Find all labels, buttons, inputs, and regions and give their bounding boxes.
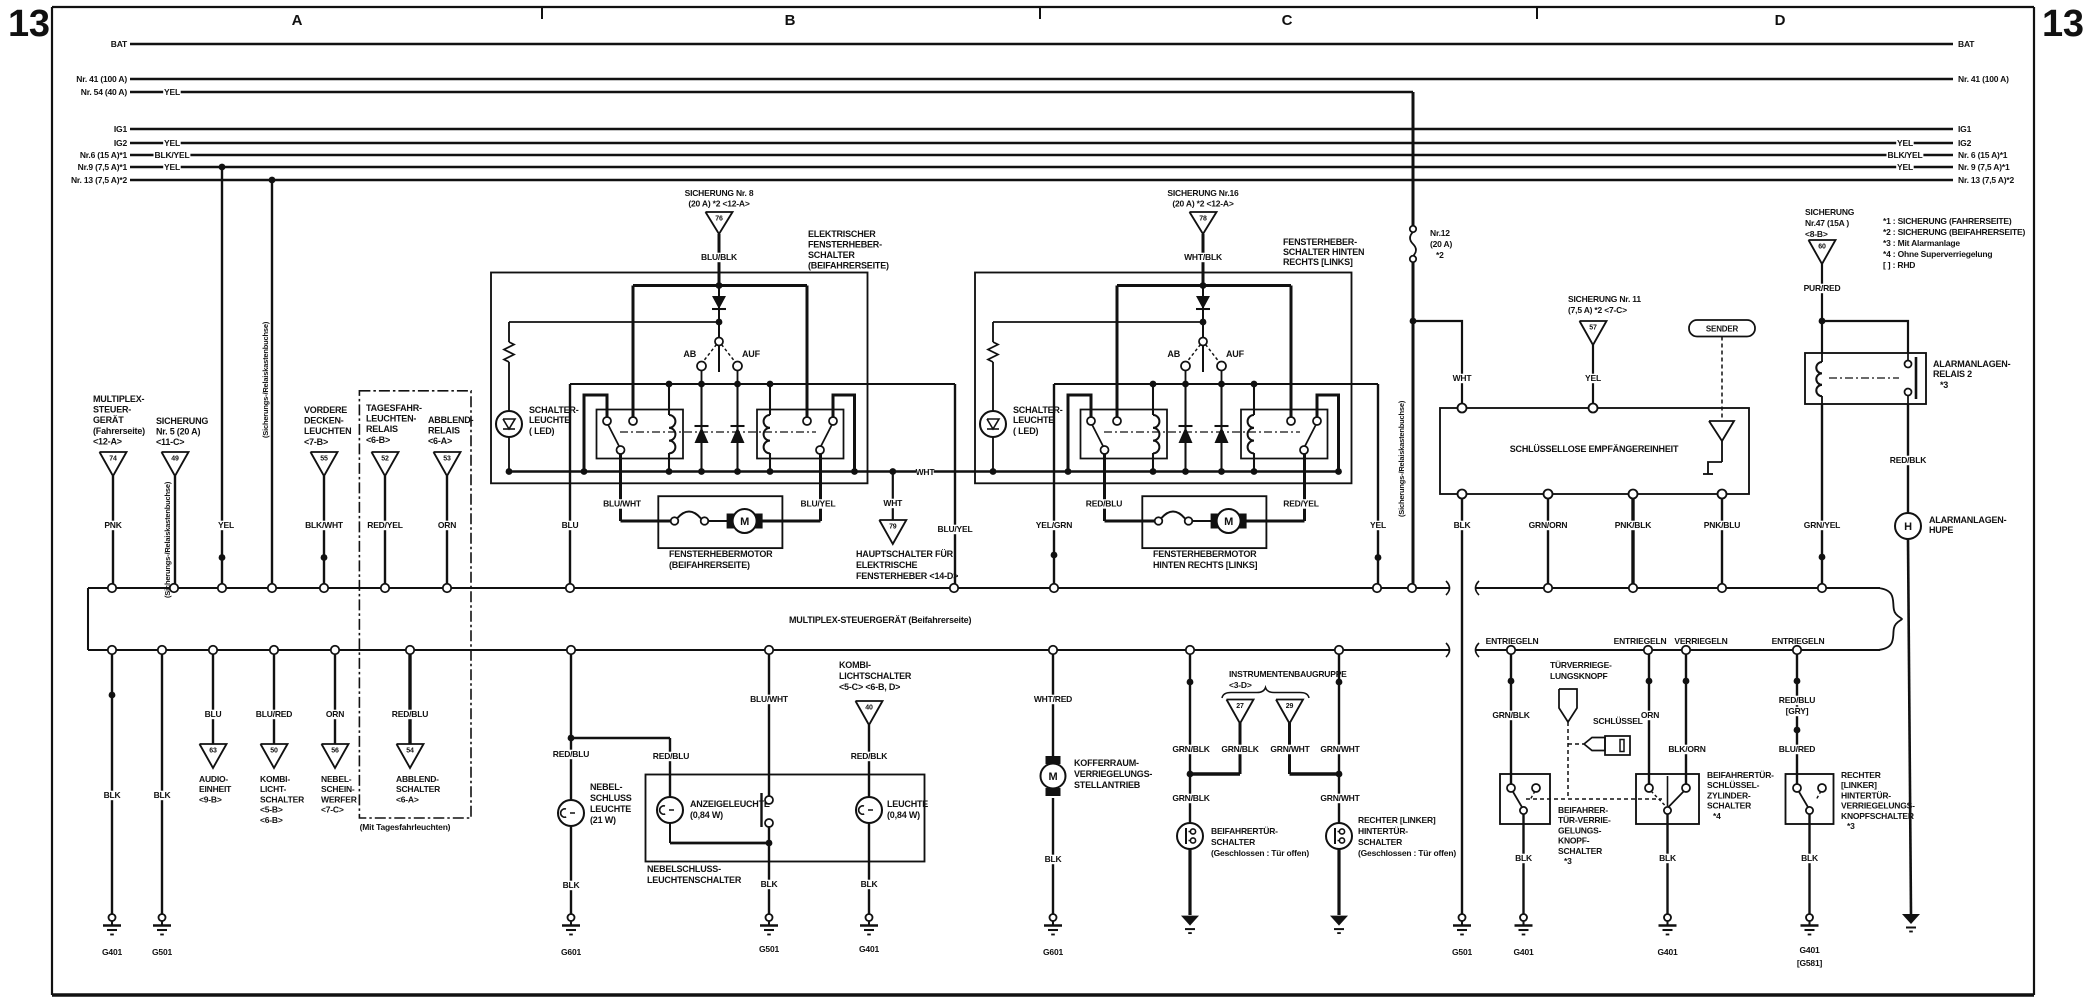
svg-text:WHT: WHT bbox=[916, 467, 936, 477]
svg-text:BLK: BLK bbox=[1515, 853, 1533, 863]
svg-text:YEL: YEL bbox=[164, 87, 180, 97]
svg-text:SCHLUSS: SCHLUSS bbox=[590, 793, 632, 803]
svg-text:HINTERTÜR-: HINTERTÜR- bbox=[1841, 790, 1891, 800]
svg-text:IG2: IG2 bbox=[1958, 138, 1972, 148]
svg-text:ELEKTRISCHE: ELEKTRISCHE bbox=[856, 560, 918, 570]
svg-text:M: M bbox=[1224, 516, 1233, 528]
svg-text:GRN/BLK: GRN/BLK bbox=[1172, 793, 1210, 803]
svg-text:SCHLÜSSEL-: SCHLÜSSEL- bbox=[1707, 780, 1760, 790]
svg-text:SCHLÜSSEL: SCHLÜSSEL bbox=[1593, 716, 1643, 726]
svg-text:VERRIEGELUNGS-: VERRIEGELUNGS- bbox=[1841, 801, 1915, 811]
svg-text:G501: G501 bbox=[759, 944, 779, 954]
svg-text:WERFER: WERFER bbox=[321, 794, 357, 804]
svg-text:IG2: IG2 bbox=[114, 138, 128, 148]
svg-text:G401: G401 bbox=[102, 947, 122, 957]
svg-text:HAUPTSCHALTER FÜR: HAUPTSCHALTER FÜR bbox=[856, 549, 954, 559]
svg-text:TÜRVERRIEGE-: TÜRVERRIEGE- bbox=[1550, 660, 1612, 670]
svg-text:SCHEIN-: SCHEIN- bbox=[321, 784, 355, 794]
svg-text:BLU: BLU bbox=[562, 520, 579, 530]
svg-text:LEUCHTENSCHALTER: LEUCHTENSCHALTER bbox=[647, 875, 742, 885]
svg-text:56: 56 bbox=[331, 748, 339, 755]
svg-text:IG1: IG1 bbox=[1958, 124, 1972, 134]
svg-text:SCHALTER HINTEN: SCHALTER HINTEN bbox=[1283, 247, 1364, 257]
svg-text:DECKEN-: DECKEN- bbox=[304, 416, 344, 426]
svg-text:(Sicherungs-/Relaiskastenbuchs: (Sicherungs-/Relaiskastenbuchse) bbox=[1397, 400, 1406, 517]
svg-text:YEL/GRN: YEL/GRN bbox=[1036, 520, 1072, 530]
svg-text:50: 50 bbox=[270, 748, 278, 755]
svg-text:Nr. 54 (40 A): Nr. 54 (40 A) bbox=[81, 87, 128, 97]
svg-text:GRN/WHT: GRN/WHT bbox=[1270, 744, 1310, 754]
svg-text:GRN/WHT: GRN/WHT bbox=[1320, 793, 1360, 803]
svg-text:BLK/YEL: BLK/YEL bbox=[155, 150, 190, 160]
svg-text:G401: G401 bbox=[1800, 945, 1820, 955]
svg-text:YEL: YEL bbox=[218, 520, 234, 530]
svg-text:SCHALTER: SCHALTER bbox=[1358, 837, 1402, 847]
svg-text:(0,84 W): (0,84 W) bbox=[887, 810, 920, 820]
svg-text:BLK/WHT: BLK/WHT bbox=[305, 520, 344, 530]
svg-text:BEIFAHRER-: BEIFAHRER- bbox=[1558, 805, 1608, 815]
svg-text:(Geschlossen : Tür offen): (Geschlossen : Tür offen) bbox=[1211, 848, 1309, 858]
svg-text:(0,84 W): (0,84 W) bbox=[690, 810, 723, 820]
svg-text:<12-A>: <12-A> bbox=[93, 436, 122, 446]
svg-text:Nr. 6 (15 A)*1: Nr. 6 (15 A)*1 bbox=[1958, 150, 2008, 160]
svg-text:*4: *4 bbox=[1713, 811, 1721, 821]
svg-text:BLK: BLK bbox=[861, 879, 879, 889]
svg-text:BLU/BLK: BLU/BLK bbox=[701, 252, 738, 262]
svg-text:*3: *3 bbox=[1847, 821, 1855, 831]
svg-text:78: 78 bbox=[1199, 216, 1207, 223]
svg-text:WHT/BLK: WHT/BLK bbox=[1184, 252, 1223, 262]
svg-text:SCHLÜSSELLOSE EMPFÄNGEREINHEIT: SCHLÜSSELLOSE EMPFÄNGEREINHEIT bbox=[1510, 444, 1679, 454]
svg-text:YEL: YEL bbox=[1585, 373, 1601, 383]
svg-text:*1 : SICHERUNG (FAHRERSEITE): *1 : SICHERUNG (FAHRERSEITE) bbox=[1883, 216, 2012, 226]
svg-text:SICHERUNG Nr. 11: SICHERUNG Nr. 11 bbox=[1568, 294, 1641, 304]
svg-text:AUF: AUF bbox=[742, 349, 761, 359]
svg-text:LEUCHTE: LEUCHTE bbox=[529, 415, 570, 425]
svg-text:G401: G401 bbox=[1658, 947, 1678, 957]
svg-text:Nr. 41 (100 A): Nr. 41 (100 A) bbox=[76, 74, 127, 84]
svg-text:B: B bbox=[785, 12, 796, 29]
svg-text:BLK: BLK bbox=[563, 880, 581, 890]
svg-text:( LED): ( LED) bbox=[1013, 426, 1038, 436]
svg-text:<6-B>: <6-B> bbox=[366, 435, 390, 445]
svg-text:G501: G501 bbox=[152, 947, 172, 957]
svg-text:ELEKTRISCHER: ELEKTRISCHER bbox=[808, 229, 876, 239]
svg-text:RED/BLU: RED/BLU bbox=[1086, 499, 1122, 509]
svg-text:SCHALTER: SCHALTER bbox=[1211, 837, 1255, 847]
svg-text:LEUCHTEN-: LEUCHTEN- bbox=[366, 414, 416, 424]
svg-text:79: 79 bbox=[889, 524, 897, 531]
svg-text:ENTRIEGELN: ENTRIEGELN bbox=[1614, 636, 1667, 646]
svg-text:BLK: BLK bbox=[104, 790, 122, 800]
svg-text:(Sicherungs-/Relaiskastenbuchs: (Sicherungs-/Relaiskastenbuchse) bbox=[163, 481, 172, 598]
svg-text:PNK/BLK: PNK/BLK bbox=[1615, 520, 1652, 530]
svg-text:MULTIPLEX-STEUERGERÄT (Beifahr: MULTIPLEX-STEUERGERÄT (Beifahrerseite) bbox=[789, 615, 971, 625]
svg-text:SCHALTER-: SCHALTER- bbox=[1013, 405, 1063, 415]
svg-text:LICHTSCHALTER: LICHTSCHALTER bbox=[839, 671, 912, 681]
svg-text:(Mit Tagesfahrleuchten): (Mit Tagesfahrleuchten) bbox=[360, 822, 451, 832]
svg-text:<6-A>: <6-A> bbox=[396, 794, 419, 804]
svg-text:Nr. 9 (7,5 A)*1: Nr. 9 (7,5 A)*1 bbox=[1958, 162, 2010, 172]
svg-text:VORDERE: VORDERE bbox=[304, 405, 347, 415]
svg-text:RED/BLK: RED/BLK bbox=[851, 751, 888, 761]
svg-text:ABBLEND-: ABBLEND- bbox=[428, 415, 474, 425]
svg-text:AB: AB bbox=[1167, 349, 1180, 359]
svg-text:SICHERUNG: SICHERUNG bbox=[156, 416, 208, 426]
svg-text:VERRIEGELN: VERRIEGELN bbox=[1674, 636, 1727, 646]
svg-text:63: 63 bbox=[209, 748, 217, 755]
svg-text:IG1: IG1 bbox=[114, 124, 128, 134]
svg-text:49: 49 bbox=[171, 456, 179, 463]
svg-text:SCHALTER: SCHALTER bbox=[1558, 846, 1602, 856]
svg-text:BLK: BLK bbox=[154, 790, 172, 800]
svg-text:Nr.9 (7,5 A)*1: Nr.9 (7,5 A)*1 bbox=[78, 162, 128, 172]
svg-text:LUNGSKNOPF: LUNGSKNOPF bbox=[1550, 671, 1608, 681]
svg-text:*3 : Mit Alarmanlage: *3 : Mit Alarmanlage bbox=[1883, 238, 1960, 248]
svg-text:WHT/RED: WHT/RED bbox=[1034, 694, 1072, 704]
svg-text:NEBEL-: NEBEL- bbox=[321, 774, 352, 784]
svg-text:G401: G401 bbox=[1514, 947, 1534, 957]
svg-text:[LINKER]: [LINKER] bbox=[1841, 780, 1877, 790]
svg-text:BLK/YEL: BLK/YEL bbox=[1888, 150, 1923, 160]
svg-text:[GRY]: [GRY] bbox=[1786, 706, 1809, 716]
svg-text:(Sicherungs-/Relaiskastenbuchs: (Sicherungs-/Relaiskastenbuchse) bbox=[261, 321, 270, 438]
svg-text:SCHALTER: SCHALTER bbox=[396, 784, 440, 794]
svg-text:55: 55 bbox=[320, 456, 328, 463]
svg-text:BLK: BLK bbox=[1801, 853, 1819, 863]
svg-text:BAT: BAT bbox=[1958, 39, 1975, 49]
svg-text:<3-D>: <3-D> bbox=[1229, 680, 1252, 690]
svg-text:ORN: ORN bbox=[438, 520, 456, 530]
svg-text:GELUNGS-: GELUNGS- bbox=[1558, 825, 1602, 835]
svg-text:Nr. 13 (7,5 A)*2: Nr. 13 (7,5 A)*2 bbox=[1958, 175, 2014, 185]
svg-text:YEL: YEL bbox=[164, 162, 180, 172]
svg-text:G601: G601 bbox=[1043, 947, 1063, 957]
svg-text:(BEIFAHRERSEITE): (BEIFAHRERSEITE) bbox=[669, 560, 750, 570]
svg-text:NEBEL-: NEBEL- bbox=[590, 782, 623, 792]
svg-text:SCHALTER: SCHALTER bbox=[808, 250, 855, 260]
svg-text:GRN/BLK: GRN/BLK bbox=[1221, 744, 1259, 754]
svg-text:RED/YEL: RED/YEL bbox=[367, 520, 402, 530]
svg-text:(Geschlossen : Tür offen): (Geschlossen : Tür offen) bbox=[1358, 848, 1456, 858]
svg-text:WHT: WHT bbox=[883, 498, 903, 508]
svg-text:( LED): ( LED) bbox=[529, 426, 554, 436]
svg-text:<6-B>: <6-B> bbox=[260, 815, 283, 825]
svg-text:ABBLEND-: ABBLEND- bbox=[396, 774, 439, 784]
svg-text:<7-B>: <7-B> bbox=[304, 437, 328, 447]
svg-text:SCHALTER: SCHALTER bbox=[260, 794, 304, 804]
svg-text:ZYLINDER-: ZYLINDER- bbox=[1707, 790, 1751, 800]
svg-text:D: D bbox=[1775, 12, 1786, 29]
svg-text:Nr. 5 (20 A): Nr. 5 (20 A) bbox=[156, 427, 200, 437]
svg-text:Nr. 13 (7,5 A)*2: Nr. 13 (7,5 A)*2 bbox=[71, 175, 127, 185]
svg-text:[ ] : RHD: [ ] : RHD bbox=[1883, 260, 1915, 270]
svg-text:BLU/WHT: BLU/WHT bbox=[750, 694, 789, 704]
svg-text:RELAIS: RELAIS bbox=[428, 426, 460, 436]
svg-text:LEUCHTEN: LEUCHTEN bbox=[304, 426, 351, 436]
svg-text:76: 76 bbox=[715, 216, 723, 223]
svg-text:BEIFAHRERTÜR-: BEIFAHRERTÜR- bbox=[1211, 826, 1278, 836]
svg-text:ANZEIGELEUCHTE: ANZEIGELEUCHTE bbox=[690, 799, 770, 809]
svg-text:LEUCHTE: LEUCHTE bbox=[590, 804, 631, 814]
svg-text:KOMBI-: KOMBI- bbox=[260, 774, 290, 784]
svg-text:M: M bbox=[1049, 771, 1058, 783]
svg-text:PUR/RED: PUR/RED bbox=[1804, 283, 1841, 293]
svg-text:FENSTERHEBER-: FENSTERHEBER- bbox=[1283, 237, 1357, 247]
svg-text:STELLANTRIEB: STELLANTRIEB bbox=[1074, 780, 1141, 790]
svg-text:BLK: BLK bbox=[1045, 854, 1063, 864]
svg-text:MULTIPLEX-: MULTIPLEX- bbox=[93, 394, 145, 404]
svg-text:WHT: WHT bbox=[1453, 373, 1473, 383]
svg-text:A: A bbox=[292, 12, 303, 29]
svg-text:60: 60 bbox=[1818, 244, 1826, 251]
svg-text:KNOPFSCHALTER: KNOPFSCHALTER bbox=[1841, 811, 1914, 821]
svg-text:ALARMANLAGEN-: ALARMANLAGEN- bbox=[1933, 359, 2011, 369]
svg-text:13: 13 bbox=[2042, 3, 2084, 45]
svg-text:FENSTERHEBER <14-D>: FENSTERHEBER <14-D> bbox=[856, 571, 958, 581]
svg-text:HUPE: HUPE bbox=[1929, 525, 1953, 535]
svg-text:BLU/YEL: BLU/YEL bbox=[938, 524, 973, 534]
svg-text:YEL: YEL bbox=[164, 138, 180, 148]
svg-text:<11-C>: <11-C> bbox=[156, 437, 184, 447]
svg-text:TAGESFAHR-: TAGESFAHR- bbox=[366, 403, 422, 413]
svg-text:Nr. 41 (100 A): Nr. 41 (100 A) bbox=[1958, 74, 2009, 84]
svg-text:EINHEIT: EINHEIT bbox=[199, 784, 232, 794]
svg-text:SENDER: SENDER bbox=[1706, 325, 1739, 334]
svg-text:TÜR-VERRIE-: TÜR-VERRIE- bbox=[1558, 815, 1611, 825]
svg-text:*2: *2 bbox=[1436, 250, 1444, 260]
svg-text:52: 52 bbox=[381, 456, 389, 463]
svg-text:74: 74 bbox=[109, 456, 117, 463]
svg-text:<7-C>: <7-C> bbox=[321, 805, 344, 815]
svg-text:NEBELSCHLUSS-: NEBELSCHLUSS- bbox=[647, 864, 721, 874]
svg-text:RECHTER: RECHTER bbox=[1841, 770, 1881, 780]
svg-text:*3: *3 bbox=[1940, 380, 1948, 390]
svg-text:BLU/RED: BLU/RED bbox=[256, 709, 292, 719]
svg-text:GRN/YEL: GRN/YEL bbox=[1804, 520, 1840, 530]
svg-text:Nr.6 (15 A)*1: Nr.6 (15 A)*1 bbox=[80, 150, 128, 160]
svg-text:(21 W): (21 W) bbox=[590, 815, 616, 825]
svg-text:BLU/YEL: BLU/YEL bbox=[801, 499, 836, 509]
svg-text:G501: G501 bbox=[1452, 947, 1472, 957]
svg-text:57: 57 bbox=[1589, 325, 1597, 332]
svg-text:GRN/BLK: GRN/BLK bbox=[1172, 744, 1210, 754]
svg-text:<8-B>: <8-B> bbox=[1805, 229, 1828, 239]
svg-text:BLK: BLK bbox=[1659, 853, 1677, 863]
svg-text:RELAIS: RELAIS bbox=[366, 424, 398, 434]
svg-text:<6-A>: <6-A> bbox=[428, 436, 452, 446]
svg-text:FENSTERHEBERMOTOR: FENSTERHEBERMOTOR bbox=[1153, 549, 1257, 559]
svg-text:RECHTS [LINKS]: RECHTS [LINKS] bbox=[1283, 257, 1353, 267]
svg-text:[G581]: [G581] bbox=[1797, 958, 1823, 968]
svg-text:(20 A): (20 A) bbox=[1430, 239, 1452, 249]
svg-text:SICHERUNG Nr.16: SICHERUNG Nr.16 bbox=[1167, 188, 1239, 198]
svg-text:<9-B>: <9-B> bbox=[199, 794, 222, 804]
svg-text:29: 29 bbox=[1286, 703, 1294, 710]
svg-text:BLK/ORN: BLK/ORN bbox=[1668, 744, 1705, 754]
svg-text:BLK: BLK bbox=[761, 879, 779, 889]
svg-text:ORN: ORN bbox=[1641, 710, 1659, 720]
svg-text:SICHERUNG: SICHERUNG bbox=[1805, 207, 1855, 217]
svg-text:G401: G401 bbox=[859, 944, 879, 954]
svg-text:SCHALTER: SCHALTER bbox=[1707, 801, 1751, 811]
svg-text:ENTRIEGELN: ENTRIEGELN bbox=[1772, 636, 1825, 646]
svg-text:<5-C> <6-B, D>: <5-C> <6-B, D> bbox=[839, 682, 900, 692]
svg-text:RED/BLU: RED/BLU bbox=[653, 751, 689, 761]
svg-text:STEUER-: STEUER- bbox=[93, 405, 131, 415]
svg-text:INSTRUMENTENBAUGRUPPE: INSTRUMENTENBAUGRUPPE bbox=[1229, 669, 1347, 679]
svg-text:G601: G601 bbox=[561, 947, 581, 957]
svg-text:<5-B>: <5-B> bbox=[260, 805, 283, 815]
svg-text:(7,5 A) *2 <7-C>: (7,5 A) *2 <7-C> bbox=[1568, 305, 1627, 315]
svg-text:40: 40 bbox=[865, 705, 873, 712]
svg-text:ENTRIEGELN: ENTRIEGELN bbox=[1486, 636, 1539, 646]
svg-text:SICHERUNG Nr. 8: SICHERUNG Nr. 8 bbox=[685, 188, 754, 198]
svg-text:BLK: BLK bbox=[1454, 520, 1472, 530]
svg-text:*3: *3 bbox=[1564, 856, 1572, 866]
svg-text:Nr.47 (15A ): Nr.47 (15A ) bbox=[1805, 218, 1849, 228]
svg-text:C: C bbox=[1282, 12, 1293, 29]
svg-text:KOFFERRAUM-: KOFFERRAUM- bbox=[1074, 758, 1139, 768]
svg-text:PNK: PNK bbox=[104, 520, 122, 530]
svg-text:*2 : SICHERUNG (BEIFAHRERSEITE: *2 : SICHERUNG (BEIFAHRERSEITE) bbox=[1883, 227, 2025, 237]
svg-text:HINTERTÜR-: HINTERTÜR- bbox=[1358, 826, 1408, 836]
svg-text:YEL: YEL bbox=[1370, 520, 1386, 530]
svg-text:GRN/WHT: GRN/WHT bbox=[1320, 744, 1360, 754]
svg-text:RED/YEL: RED/YEL bbox=[1283, 499, 1318, 509]
svg-text:BEIFAHRERTÜR-: BEIFAHRERTÜR- bbox=[1707, 770, 1774, 780]
svg-text:RED/BLU: RED/BLU bbox=[392, 709, 428, 719]
svg-text:BLU/WHT: BLU/WHT bbox=[603, 499, 642, 509]
svg-text:(20 A) *2 <12-A>: (20 A) *2 <12-A> bbox=[688, 199, 749, 209]
svg-text:GERÄT: GERÄT bbox=[93, 415, 124, 425]
svg-text:54: 54 bbox=[406, 748, 414, 755]
svg-text:(BEIFAHRERSEITE): (BEIFAHRERSEITE) bbox=[808, 261, 889, 271]
svg-text:(Fahrerseite): (Fahrerseite) bbox=[93, 426, 145, 436]
svg-text:*4 : Ohne Superverriegelung: *4 : Ohne Superverriegelung bbox=[1883, 249, 1992, 259]
svg-text:13: 13 bbox=[8, 3, 50, 45]
svg-text:HINTEN RECHTS [LINKS]: HINTEN RECHTS [LINKS] bbox=[1153, 560, 1257, 570]
svg-text:LEUCHTE: LEUCHTE bbox=[1013, 415, 1054, 425]
svg-text:GRN/BLK: GRN/BLK bbox=[1492, 710, 1530, 720]
svg-text:M: M bbox=[740, 516, 749, 528]
svg-text:SCHALTER-: SCHALTER- bbox=[529, 405, 579, 415]
svg-text:Nr.12: Nr.12 bbox=[1430, 228, 1450, 238]
svg-text:LICHT-: LICHT- bbox=[260, 784, 287, 794]
svg-text:YEL: YEL bbox=[1897, 138, 1913, 148]
svg-text:27: 27 bbox=[1236, 703, 1244, 710]
svg-text:KOMBI-: KOMBI- bbox=[839, 660, 871, 670]
svg-text:BAT: BAT bbox=[111, 39, 128, 49]
svg-text:VERRIEGELUNGS-: VERRIEGELUNGS- bbox=[1074, 769, 1152, 779]
svg-text:53: 53 bbox=[443, 456, 451, 463]
svg-text:ALARMANLAGEN-: ALARMANLAGEN- bbox=[1929, 515, 2007, 525]
svg-text:FENSTERHEBER-: FENSTERHEBER- bbox=[808, 240, 882, 250]
svg-text:RECHTER [LINKER]: RECHTER [LINKER] bbox=[1358, 815, 1436, 825]
svg-text:YEL: YEL bbox=[1897, 162, 1913, 172]
svg-text:ORN: ORN bbox=[326, 709, 344, 719]
svg-text:LEUCHTE: LEUCHTE bbox=[887, 799, 928, 809]
svg-text:H: H bbox=[1904, 521, 1912, 533]
svg-text:AUF: AUF bbox=[1226, 349, 1245, 359]
svg-text:GRN/ORN: GRN/ORN bbox=[1529, 520, 1568, 530]
svg-text:BLU/RED: BLU/RED bbox=[1779, 744, 1815, 754]
svg-text:AB: AB bbox=[683, 349, 696, 359]
svg-text:BLU: BLU bbox=[205, 709, 222, 719]
svg-text:RED/BLU: RED/BLU bbox=[1779, 695, 1815, 705]
svg-text:AUDIO-: AUDIO- bbox=[199, 774, 228, 784]
svg-text:KNOPF-: KNOPF- bbox=[1558, 836, 1590, 846]
svg-text:PNK/BLU: PNK/BLU bbox=[1704, 520, 1740, 530]
svg-text:RED/BLK: RED/BLK bbox=[1890, 455, 1927, 465]
svg-text:(20 A) *2 <12-A>: (20 A) *2 <12-A> bbox=[1172, 199, 1233, 209]
svg-text:RED/BLU: RED/BLU bbox=[553, 749, 589, 759]
svg-text:FENSTERHEBERMOTOR: FENSTERHEBERMOTOR bbox=[669, 549, 773, 559]
svg-text:RELAIS 2: RELAIS 2 bbox=[1933, 369, 1972, 379]
